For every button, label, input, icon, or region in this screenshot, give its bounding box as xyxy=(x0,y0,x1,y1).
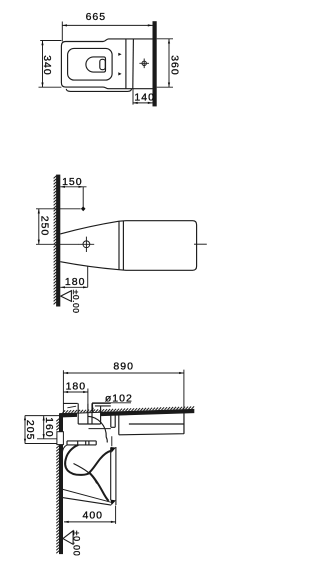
svg-text:360: 360 xyxy=(168,55,180,76)
tank centre mark xyxy=(83,241,90,248)
bowl inner rise to rim xyxy=(88,451,111,474)
floor hatching (bottom view) xyxy=(56,419,59,422)
through-floor outlet box xyxy=(57,432,64,445)
wall (section) right segment xyxy=(101,409,194,416)
seat hinge xyxy=(111,415,115,427)
svg-text:890: 890 xyxy=(113,361,134,373)
floor (rotated section) xyxy=(56,175,60,307)
svg-text:400: 400 xyxy=(83,509,104,521)
seat inner rim xyxy=(68,48,113,80)
dimension 150 line xyxy=(60,187,86,207)
outlet collar xyxy=(67,441,96,445)
svg-text:205: 205 xyxy=(24,420,36,441)
hinge mark left xyxy=(118,53,121,56)
datum level symbol xyxy=(61,291,72,302)
neck joint lines xyxy=(119,221,123,270)
dimension 140 lines xyxy=(133,89,153,105)
wall (section) left segment xyxy=(60,413,78,418)
dimension 250 lines xyxy=(36,209,81,245)
outlet hole xyxy=(100,59,106,69)
dimension 665 line xyxy=(62,22,152,42)
wall hatching (bottom view) xyxy=(63,410,66,413)
trap profile xyxy=(65,445,90,475)
svg-text:160: 160 xyxy=(43,417,55,438)
wall line across pipe hole xyxy=(77,411,101,414)
wall (plan) xyxy=(153,21,157,106)
cistern centre mark xyxy=(142,61,146,65)
pan base against wall xyxy=(63,403,111,406)
pan base edge xyxy=(62,497,112,505)
cistern lid edge xyxy=(132,39,135,89)
cistern front edge xyxy=(125,39,127,89)
dimension 180 lines xyxy=(60,266,87,287)
cistern centreline tick xyxy=(194,243,207,245)
sump fall to foot xyxy=(90,473,109,501)
dimension 205 lines xyxy=(25,416,59,444)
dimension 340 lines xyxy=(39,41,62,88)
rim plane xyxy=(111,447,116,505)
rim corner mark top xyxy=(111,447,116,453)
svg-text:±0.00: ±0.00 xyxy=(71,290,81,314)
base outline below seat xyxy=(66,89,131,92)
dimension 180 line xyxy=(63,389,88,404)
hinge mark right xyxy=(118,72,121,75)
svg-text:140: 140 xyxy=(134,92,155,104)
svg-text:340: 340 xyxy=(41,55,53,76)
water spot xyxy=(86,57,106,72)
channel inner wall xyxy=(74,464,97,484)
outlet pipe through floor xyxy=(78,403,100,424)
svg-text:180: 180 xyxy=(66,381,87,393)
svg-text:665: 665 xyxy=(86,11,107,23)
seat edge xyxy=(89,429,112,447)
rim corner mark bottom xyxy=(111,500,116,506)
svg-text:±0.00: ±0.00 xyxy=(72,531,82,557)
svg-text:180: 180 xyxy=(65,276,86,288)
dimension 890 lines xyxy=(63,370,183,434)
dimension 400 lines xyxy=(64,506,116,524)
svg-text:250: 250 xyxy=(38,216,50,237)
floor (section) upper part xyxy=(59,413,63,431)
bowl outer outline (plan) xyxy=(61,39,152,89)
dimension 160 lines xyxy=(37,416,57,439)
floor (section) lower part xyxy=(59,445,63,554)
cistern (section) xyxy=(119,413,184,435)
water supply point xyxy=(81,206,86,211)
bowl outer shell xyxy=(62,445,111,502)
trap bend arc xyxy=(88,416,108,442)
dimension 360 lines xyxy=(157,39,173,87)
floor hatching (middle view) xyxy=(54,176,57,179)
datum level symbol xyxy=(63,531,73,545)
body and cistern silhouette xyxy=(60,221,196,271)
hatch dash xyxy=(67,406,76,408)
hatching strokes xyxy=(54,176,195,553)
